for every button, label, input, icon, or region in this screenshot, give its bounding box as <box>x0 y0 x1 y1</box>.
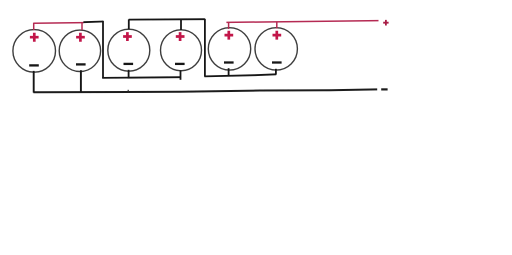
wire: link pair1+ to pair2- vertical segment <box>102 21 104 78</box>
wire: pair 2 negative rail <box>102 76 180 79</box>
wire: cell 5 positive lead <box>228 22 230 29</box>
wire: red positive rail of pair 3 to + output <box>226 21 378 23</box>
cell 5 minus terminal mark <box>224 61 234 63</box>
wire: cell 2 positive lead <box>81 22 83 30</box>
wire: cell 6 positive lead <box>276 22 278 29</box>
battery cell 5 <box>208 28 250 70</box>
cell 3 minus terminal mark <box>124 63 134 65</box>
battery cell 1 <box>13 30 56 73</box>
wire: cell 1 negative lead to bus <box>33 71 35 93</box>
wire: cell 3 negative lead <box>128 70 130 78</box>
battery cell 2 <box>59 30 100 71</box>
cell 4 minus terminal mark <box>175 63 185 65</box>
wire: cell 2 negative lead to bus <box>80 70 82 92</box>
wire: cell 1 positive lead <box>33 23 35 30</box>
wire: link pair2+ to pair3- vertical segment <box>204 19 206 77</box>
wire: pair 2 positive rail <box>129 18 205 20</box>
cell 2 plus terminal mark <box>76 33 85 42</box>
cell 4 plus terminal mark <box>176 32 185 41</box>
cell 6 minus terminal mark <box>272 61 282 63</box>
wire: cell 4 positive lead <box>180 19 182 30</box>
wire: cell 3 positive lead <box>128 19 130 29</box>
cell 2 minus terminal mark <box>76 63 86 65</box>
wire: red positive rail of pair 1 <box>33 22 83 25</box>
wire: pair 3 negative rail <box>204 74 276 76</box>
battery cell 4 <box>161 30 202 71</box>
output terminal plus mark <box>383 20 388 26</box>
battery cell 3 <box>108 29 150 71</box>
cell 3 plus terminal mark <box>123 32 132 41</box>
output terminal minus mark <box>381 88 387 90</box>
battery cell 6 <box>255 28 297 70</box>
cell 1 plus terminal mark <box>30 33 39 42</box>
junction tick on negative bus <box>127 90 129 93</box>
wire: link pair1+ to pair2- horizontal segment <box>83 21 103 24</box>
cell 5 plus terminal mark <box>225 31 234 40</box>
cell 1 minus terminal mark <box>29 64 39 66</box>
wire: cell 6 negative lead <box>275 69 277 75</box>
wire: cell 4 negative lead <box>180 70 182 80</box>
wire: main negative bus <box>33 89 377 92</box>
cell 6 plus terminal mark <box>273 31 282 40</box>
wire: cell 5 negative lead <box>228 68 230 75</box>
